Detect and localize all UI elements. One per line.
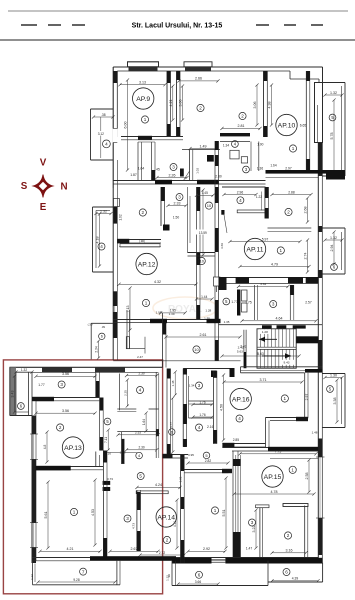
svg-text:1.34: 1.34: [189, 384, 195, 388]
svg-text:1.48: 1.48: [312, 431, 318, 435]
svg-text:1.48: 1.48: [171, 380, 175, 386]
svg-text:5.63: 5.63: [237, 349, 243, 353]
svg-text:6: 6: [198, 572, 201, 577]
svg-text:5.78: 5.78: [330, 133, 334, 140]
svg-text:V: V: [40, 158, 47, 169]
svg-text:4.53: 4.53: [91, 509, 95, 516]
svg-text:2.67: 2.67: [131, 547, 138, 551]
svg-text:1.35: 1.35: [224, 320, 230, 324]
svg-text:10: 10: [199, 258, 204, 263]
svg-text:1: 1: [292, 146, 295, 151]
svg-text:4.32: 4.32: [154, 280, 161, 284]
svg-text:2.61: 2.61: [200, 333, 207, 337]
svg-text:2.47: 2.47: [137, 355, 143, 359]
svg-text:0.73: 0.73: [107, 477, 113, 481]
svg-text:3: 3: [251, 520, 254, 525]
svg-text:3.61: 3.61: [260, 282, 266, 286]
svg-text:3.56: 3.56: [62, 372, 69, 376]
svg-text:1.45: 1.45: [202, 191, 208, 195]
svg-text:5.51: 5.51: [222, 510, 226, 517]
svg-text:1.02: 1.02: [196, 168, 200, 174]
svg-text:2: 2: [241, 114, 244, 119]
svg-text:1.50: 1.50: [173, 216, 180, 220]
svg-text:5.61: 5.61: [44, 512, 48, 519]
svg-text:13.59: 13.59: [199, 231, 207, 235]
svg-text:2.97: 2.97: [285, 167, 292, 171]
svg-text:AP.13: AP.13: [64, 445, 82, 452]
svg-text:2.94: 2.94: [330, 245, 334, 252]
svg-text:2.82: 2.82: [205, 459, 212, 463]
svg-text:1.32: 1.32: [30, 574, 34, 580]
svg-text:1.76: 1.76: [199, 400, 205, 404]
svg-text:2.68: 2.68: [304, 207, 308, 214]
svg-text:3: 3: [198, 383, 201, 388]
svg-text:AP.10: AP.10: [278, 122, 296, 129]
svg-text:4.8: 4.8: [43, 445, 47, 450]
svg-text:3: 3: [172, 165, 175, 170]
svg-text:1.28: 1.28: [205, 309, 211, 313]
svg-text:3.06: 3.06: [179, 100, 183, 107]
svg-text:1: 1: [284, 396, 287, 401]
svg-text:4.64: 4.64: [276, 317, 283, 321]
svg-text:1: 1: [291, 467, 294, 472]
svg-text:N: N: [60, 182, 67, 193]
svg-text:2.85: 2.85: [233, 438, 240, 442]
svg-text:1.64: 1.64: [142, 419, 146, 425]
svg-text:10: 10: [207, 203, 212, 208]
svg-text:2: 2: [166, 538, 169, 543]
svg-text:6: 6: [101, 335, 103, 339]
svg-text:1: 1: [73, 510, 76, 515]
svg-text:2.16: 2.16: [207, 425, 214, 429]
svg-text:2.92: 2.92: [203, 547, 210, 551]
svg-text:2.25: 2.25: [123, 390, 127, 396]
svg-text:2.74: 2.74: [304, 253, 308, 260]
svg-text:1.44: 1.44: [201, 295, 207, 299]
svg-text:AP.12: AP.12: [138, 261, 156, 268]
svg-text:4: 4: [239, 198, 242, 203]
svg-text:2.26: 2.26: [169, 173, 176, 177]
svg-text:3.38: 3.38: [333, 398, 337, 405]
svg-text:2: 2: [199, 106, 202, 111]
svg-text:1.30: 1.30: [330, 373, 337, 377]
svg-text:AP.16: AP.16: [232, 396, 250, 403]
svg-text:5.97: 5.97: [262, 237, 269, 241]
svg-text:2: 2: [142, 210, 145, 215]
svg-text:AP.15: AP.15: [264, 474, 282, 481]
svg-text:4: 4: [105, 142, 108, 147]
svg-text:2.33: 2.33: [174, 201, 181, 205]
svg-text:7: 7: [82, 569, 85, 574]
svg-text:2.97: 2.97: [305, 394, 309, 401]
svg-text:4: 4: [100, 244, 103, 249]
svg-text:1.02: 1.02: [119, 214, 123, 220]
svg-text:3: 3: [60, 382, 63, 387]
svg-text:2.34: 2.34: [95, 346, 99, 352]
svg-text:1: 1: [280, 248, 283, 253]
svg-text:10: 10: [194, 347, 199, 352]
svg-text:AP.9: AP.9: [136, 96, 150, 103]
svg-text:1.36: 1.36: [257, 167, 263, 171]
svg-text:4: 4: [198, 425, 201, 430]
svg-text:1.77: 1.77: [38, 383, 45, 387]
svg-text:.38: .38: [101, 113, 106, 117]
svg-text:3.12: 3.12: [98, 132, 104, 136]
svg-text:4.50: 4.50: [220, 404, 224, 411]
svg-text:6: 6: [171, 430, 173, 434]
svg-text:3.16: 3.16: [286, 549, 293, 553]
svg-text:2.66: 2.66: [195, 77, 202, 81]
svg-text:1.32: 1.32: [21, 368, 27, 372]
svg-text:1: 1: [145, 301, 148, 306]
svg-text:AP.14: AP.14: [157, 514, 175, 521]
svg-text:3.69: 3.69: [220, 243, 224, 249]
svg-text:1.47: 1.47: [246, 547, 253, 551]
svg-text:4.38: 4.38: [268, 102, 272, 109]
svg-text:9.43: 9.43: [283, 361, 289, 365]
svg-text:3: 3: [126, 516, 129, 521]
svg-text:1.28: 1.28: [262, 330, 268, 334]
svg-text:2.30: 2.30: [138, 446, 144, 450]
svg-text:3.71: 3.71: [260, 378, 267, 382]
svg-text:1.77: 1.77: [231, 300, 237, 304]
svg-text:1: 1: [214, 508, 217, 513]
svg-text:1.39: 1.39: [169, 312, 175, 316]
svg-text:.39: .39: [101, 325, 105, 329]
svg-text:6.95: 6.95: [188, 453, 194, 457]
svg-text:3.56: 3.56: [62, 409, 69, 413]
svg-text:AP.11: AP.11: [246, 246, 263, 253]
svg-text:4: 4: [139, 388, 142, 393]
svg-text:1.32: 1.32: [330, 91, 337, 95]
svg-text:1.87: 1.87: [130, 173, 137, 177]
svg-text:4.21: 4.21: [67, 547, 74, 551]
svg-text:2.88: 2.88: [288, 190, 295, 194]
svg-text:2.57: 2.57: [305, 300, 312, 304]
svg-text:2.96: 2.96: [237, 190, 244, 194]
svg-text:1.64: 1.64: [138, 166, 145, 170]
svg-text:2: 2: [59, 425, 62, 430]
svg-text:3.06: 3.06: [253, 102, 257, 109]
svg-text:6: 6: [285, 570, 288, 575]
svg-text:(.90): (.90): [139, 239, 145, 243]
svg-text:E: E: [40, 202, 47, 213]
svg-text:6.65: 6.65: [300, 123, 307, 127]
svg-text:4.11: 4.11: [173, 521, 177, 527]
svg-text:2.30: 2.30: [138, 371, 144, 375]
svg-text:4: 4: [238, 416, 241, 421]
svg-text:S: S: [21, 181, 28, 192]
svg-text:1.64: 1.64: [270, 164, 276, 168]
svg-text:2: 2: [287, 533, 290, 538]
svg-text:Str. Lacul Ursului, Nr. 13-15: Str. Lacul Ursului, Nr. 13-15: [132, 23, 223, 30]
svg-text:3.22: 3.22: [252, 526, 256, 533]
svg-text:1.22: 1.22: [256, 195, 262, 199]
svg-text:2.72: 2.72: [159, 551, 166, 555]
svg-text:.45: .45: [155, 168, 160, 172]
svg-text:4.78: 4.78: [271, 490, 278, 494]
svg-text:3.13: 3.13: [139, 81, 146, 85]
svg-text:4.79: 4.79: [271, 262, 278, 266]
svg-text:1: 1: [144, 117, 147, 122]
svg-text:3.43: 3.43: [11, 391, 15, 398]
svg-text:2.81: 2.81: [238, 124, 245, 128]
svg-text:3: 3: [272, 302, 275, 307]
svg-text:4.73: 4.73: [132, 523, 136, 529]
svg-text:1.49: 1.49: [200, 144, 207, 148]
svg-text:2: 2: [287, 210, 290, 215]
svg-text:1.34: 1.34: [223, 144, 229, 148]
svg-text:4.39: 4.39: [292, 577, 299, 581]
svg-text:3: 3: [178, 195, 181, 200]
svg-text:1.32: 1.32: [166, 575, 170, 581]
svg-text:5: 5: [139, 474, 142, 479]
svg-text:6.00: 6.00: [124, 122, 128, 129]
svg-text:1.95: 1.95: [156, 311, 162, 315]
svg-text:4.18: 4.18: [96, 237, 100, 244]
svg-text:7.73: 7.73: [275, 450, 282, 454]
svg-text:7.11: 7.11: [104, 437, 108, 443]
svg-text:4.21: 4.21: [169, 100, 173, 107]
svg-text:2.58: 2.58: [305, 473, 309, 480]
svg-text:9.28: 9.28: [73, 578, 79, 582]
svg-text:1.76: 1.76: [199, 413, 205, 417]
svg-text:1.32: 1.32: [330, 236, 337, 240]
svg-text:3.66: 3.66: [195, 580, 202, 584]
svg-text:4.24: 4.24: [155, 483, 162, 487]
svg-text:1.00: 1.00: [257, 143, 263, 147]
